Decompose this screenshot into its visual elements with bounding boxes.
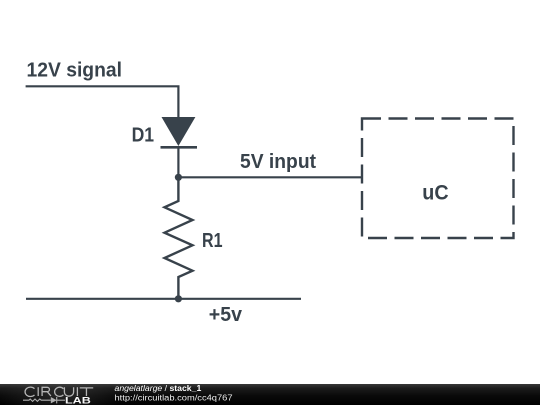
svg-text:angelatlarge / stack_1: angelatlarge / stack_1 bbox=[115, 384, 202, 393]
svg-text:http://circuitlab.com/cc4q767: http://circuitlab.com/cc4q767 bbox=[115, 394, 234, 403]
svg-text:12V signal: 12V signal bbox=[27, 58, 123, 81]
svg-text:LAB: LAB bbox=[65, 395, 91, 405]
svg-text:R1: R1 bbox=[202, 229, 223, 252]
svg-text:uC: uC bbox=[422, 182, 448, 205]
svg-text:D1: D1 bbox=[132, 123, 155, 146]
svg-text:5V input: 5V input bbox=[240, 150, 316, 173]
svg-text:+5v: +5v bbox=[209, 303, 243, 326]
